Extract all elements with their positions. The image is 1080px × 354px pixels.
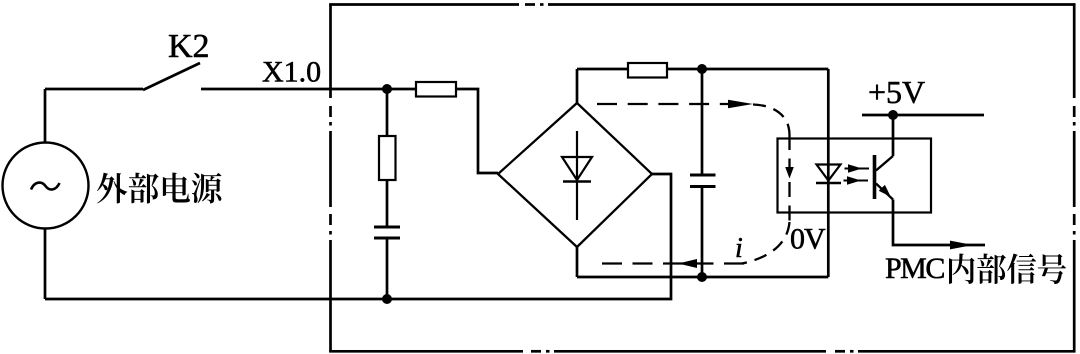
svg-text:i: i	[735, 233, 743, 264]
svg-text:+5V: +5V	[868, 74, 925, 110]
svg-text:PMC: PMC	[885, 252, 944, 285]
svg-text:0V: 0V	[790, 223, 826, 256]
svg-text:K2: K2	[168, 28, 210, 65]
svg-text:X1.0: X1.0	[262, 56, 321, 89]
